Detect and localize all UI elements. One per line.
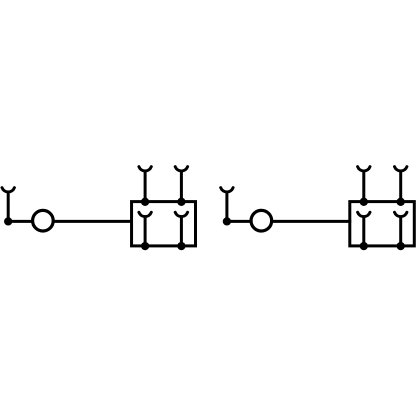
junction node: top contact 1.1 xyxy=(141,198,149,206)
junction node: bottom contact 2.4 xyxy=(397,242,405,250)
section 2: terminal block 2 xyxy=(221,167,415,251)
top clamp contact 1.1: cup xyxy=(139,167,151,171)
test socket X10 (left) xyxy=(2,188,14,192)
junction node: bottom contact 1.4 xyxy=(177,242,185,250)
top clamp contact 2.1: cup xyxy=(358,167,370,171)
disconnect circle P1 xyxy=(33,210,54,231)
top clamp contact 2.2: cup xyxy=(395,167,407,171)
junction node: top contact 2.2 xyxy=(397,198,405,206)
junction node: bottom contact 2.3 xyxy=(360,242,368,250)
junction node: top contact 2.1 xyxy=(360,198,368,206)
wire: top contact 2.1 stem xyxy=(362,171,365,202)
wire: top contact 1.1 stem xyxy=(144,171,147,202)
wire: node to block body xyxy=(227,220,351,223)
wire: inner contact 1.4 stem xyxy=(180,217,183,246)
wire: inner contact 1.3 stem xyxy=(144,217,147,246)
wire: inner contact 2.3 stem xyxy=(362,217,365,246)
wire: node to block body xyxy=(8,220,133,223)
junction node: top contact 1.2 xyxy=(177,198,185,206)
wire: top contact 2.2 stem xyxy=(399,171,402,202)
test socket X20 (left) xyxy=(221,188,233,192)
junction node 2A xyxy=(223,217,231,225)
inner socket contact 1.3: cup xyxy=(139,212,151,216)
inner socket contact 1.4: cup xyxy=(175,212,187,216)
section 1: terminal block 1 xyxy=(2,167,196,251)
inner socket contact 2.3: cup xyxy=(358,212,370,216)
inner socket contact 2.4: cup xyxy=(395,212,407,216)
wire: socket X10 stem xyxy=(7,192,10,221)
wire: inner contact 2.4 stem xyxy=(399,217,402,246)
terminal block body U2 xyxy=(350,202,415,246)
top clamp contact 1.2: cup xyxy=(175,167,187,171)
junction node: bottom contact 1.3 xyxy=(141,242,149,250)
wire: top contact 1.2 stem xyxy=(180,171,183,202)
disconnect circle P2 xyxy=(251,210,272,231)
junction node 1A xyxy=(4,217,12,225)
terminal block body U1 xyxy=(132,202,196,246)
wire: socket X20 stem xyxy=(225,192,228,221)
